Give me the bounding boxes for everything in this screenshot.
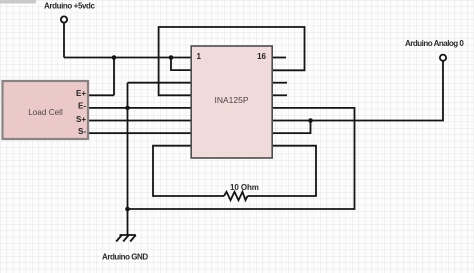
wire +5v rail horizontal — [64, 57, 191, 59]
wire resistor to pin9 — [248, 146, 317, 196]
wire E- row — [88, 107, 191, 109]
svg-text:E+: E+ — [76, 89, 86, 98]
svg-text:Arduino GND: Arduino GND — [102, 253, 148, 262]
wire S- row — [88, 132, 191, 134]
junction +5v to pin2 — [169, 55, 174, 60]
terminal Arduino Analog 0 circle — [440, 55, 446, 61]
svg-text:Arduino +5vdc: Arduino +5vdc — [44, 2, 96, 11]
junction +5v to E+ — [112, 55, 117, 60]
wire top loop pin4 to pin15 — [159, 27, 305, 95]
resistor 10 Ohm zigzag — [224, 192, 248, 200]
svg-text:1: 1 — [197, 52, 202, 61]
wire E+ branch vertical — [113, 58, 115, 96]
svg-text:Load Cell: Load Cell — [28, 108, 63, 117]
svg-text:E-: E- — [78, 102, 86, 111]
load cell box — [3, 81, 89, 139]
svg-text:INA125P: INA125P — [214, 95, 248, 105]
wire pin8 to resistor — [153, 146, 224, 196]
wire pin2 branch — [171, 58, 191, 71]
wire S+ row — [88, 120, 191, 122]
junction ground with E- — [125, 106, 130, 111]
wire pin10 tie — [272, 121, 310, 134]
svg-text:Arduino Analog 0: Arduino Analog 0 — [405, 39, 464, 48]
wire pin11 to analog terminal — [272, 61, 443, 121]
wire pin3 to ground vertical — [128, 82, 192, 84]
junction pin10 tie — [308, 118, 313, 123]
wire ground vertical — [127, 83, 129, 235]
svg-text:16: 16 — [257, 52, 266, 61]
wire +5vdc terminal to rail — [63, 23, 65, 58]
wire pin14 stub — [272, 82, 287, 84]
wire pin16 stub — [272, 57, 286, 59]
op-amp U1 INA125P box — [191, 46, 272, 158]
junction ground with bottom rail — [125, 207, 130, 212]
wire pin13 stub — [272, 94, 287, 96]
svg-text:S+: S+ — [76, 115, 86, 124]
ground symbol — [116, 235, 136, 242]
wire pin12 to ground rail — [128, 108, 355, 209]
svg-text:10 Ohm: 10 Ohm — [230, 183, 259, 192]
terminal Arduino +5vdc circle — [61, 16, 67, 22]
svg-text:S-: S- — [78, 127, 86, 136]
wire E+ stub from load cell — [88, 94, 114, 96]
